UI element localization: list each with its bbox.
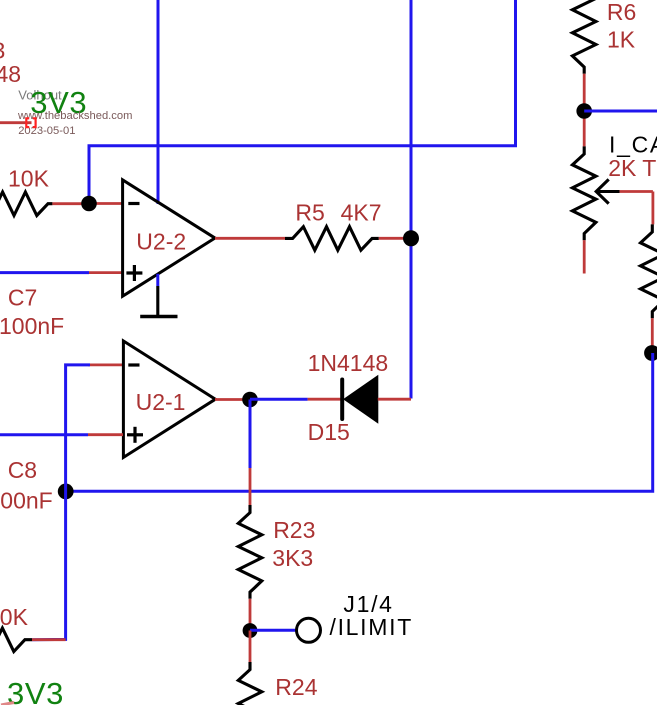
ground below U2-2 (V- pin stub + gnd bar) (140, 274, 177, 317)
svg-text:100nF: 100nF (0, 487, 53, 513)
wire C8 vertical x=66.3 with U2-1 -input branch (32, 365, 123, 640)
svg-text:R24: R24 (275, 674, 317, 700)
svg-text:C7: C7 (8, 284, 37, 310)
op-amp U2-2 triangle (123, 180, 215, 296)
svg-text:3: 3 (0, 37, 5, 63)
wire dangling 3V3 stub y=122.7 (0, 118, 36, 127)
op-amp U2-1 triangle (123, 341, 215, 457)
wire U2-1 out junction down to R23 (249, 400, 252, 506)
svg-text:2K TRIM: 2K TRIM (608, 155, 657, 181)
svg-text:R5: R5 (295, 199, 324, 225)
wire V+ rail top-left vertical x=157.5 to U2-2 V+ pin (157, 0, 160, 204)
node junction R5/vertical bus (411,238.3) (403, 230, 419, 246)
power symbol arrow fragment bottom-left (1, 703, 14, 705)
svg-text:www.thebackshed.com: www.thebackshed.com (17, 110, 132, 122)
svg-text:C8: C8 (8, 457, 37, 483)
svg-text:10K: 10K (0, 604, 29, 630)
wire vertical x=515.5 from top to horizontal feedback wire (89, 0, 516, 204)
svg-text:D15: D15 (308, 419, 350, 445)
svg-text:/ILIMIT: /ILIMIT (330, 614, 413, 640)
svg-text:1K: 1K (607, 26, 636, 52)
wire output junction to diode (250, 398, 341, 401)
resistor R23 3K3 vertical (238, 505, 261, 631)
svg-text:1N4148: 1N4148 (308, 350, 389, 376)
resistor 10K left (horizontal, cut at left edge) (0, 192, 123, 216)
svg-text:100nF: 100nF (0, 313, 64, 339)
node junction R23/R24/J1 (250,630.5) (243, 623, 258, 638)
wire U2-1 +input horizontal y=434.6 (0, 433, 123, 436)
diode D15 1N4148 (cathode left) (342, 376, 411, 423)
node junction U2-1 output (250,399.5) (242, 392, 258, 408)
wire vertical bus x=411 from top to diode D15 anode node (410, 0, 413, 399)
svg-text:4K7: 4K7 (341, 199, 382, 225)
svg-text:U2-1: U2-1 (136, 389, 186, 415)
svg-text:U2-2: U2-2 (136, 229, 186, 255)
node junction R6/pot (584,111) (576, 103, 592, 119)
svg-text:3K3: 3K3 (272, 545, 313, 571)
connector J1 pin 4 open circle (297, 618, 321, 642)
resistor R5 4K7 horizontal (285, 227, 411, 251)
resistor R6 1K vertical top-right (572, 0, 596, 146)
wire junction to connector pin (250, 629, 297, 632)
wire right edge down then across y=492 (66, 353, 653, 491)
resistor (unlabelled, right edge) vertical (641, 224, 657, 353)
svg-text:I_CAL: I_CAL (609, 131, 657, 157)
potentiometer RV 2K TRIM vertical (572, 146, 619, 273)
node junction at U2-2 -input (89,203.5) (81, 196, 97, 212)
svg-text:R6: R6 (607, 0, 636, 25)
svg-text:R23: R23 (273, 517, 315, 543)
wire U2-2 output to R5 (215, 237, 285, 240)
node junction C8 net (65.8,492) (58, 484, 74, 500)
svg-text:48: 48 (0, 61, 21, 87)
wire pot wiper to right resistor (620, 192, 653, 225)
wire U2-1 output (215, 398, 250, 401)
node junction right resistor to wire (651.5,353) (644, 345, 657, 361)
svg-text:J1/4: J1/4 (343, 591, 393, 617)
resistor 10K bottom-left (horizontal, cut) (0, 628, 66, 652)
svg-text:3V3: 3V3 (7, 676, 64, 705)
svg-text:10K: 10K (8, 166, 50, 192)
resistor R24 vertical (cut at bottom) (238, 631, 261, 705)
wire U2-2 +input horizontal y=272.6 (0, 271, 123, 274)
wire from R6 junction to right edge y=111 (584, 110, 657, 113)
